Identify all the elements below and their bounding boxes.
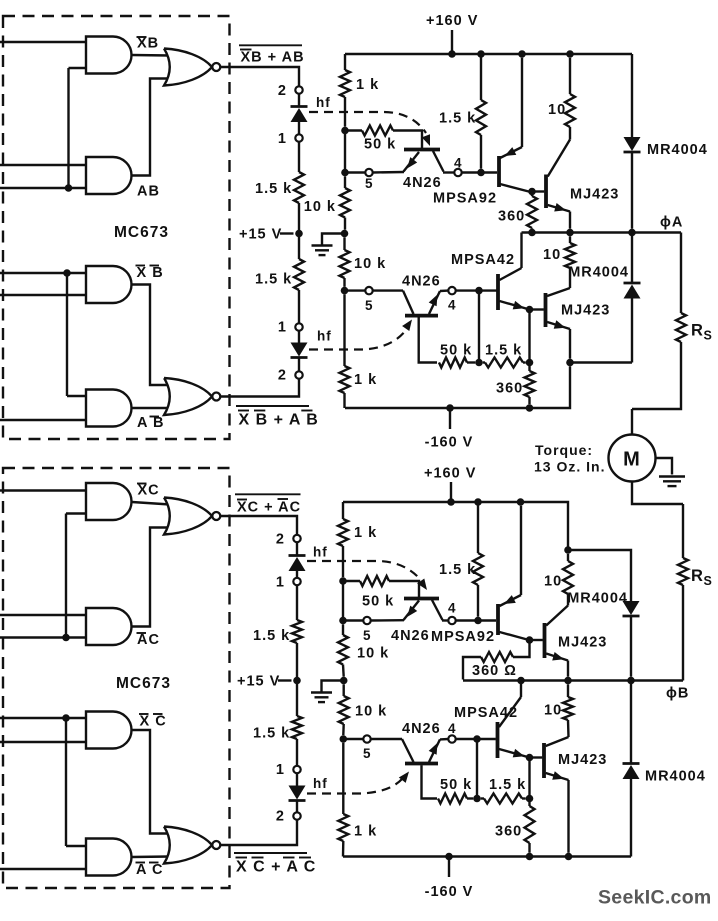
svg-text:MJ423: MJ423: [558, 635, 607, 651]
resistor 10 k (top upper): [344, 176, 346, 188]
svg-text:MPSA92: MPSA92: [431, 629, 495, 645]
svg-text:2: 2: [276, 532, 285, 548]
ground (top half): [322, 234, 345, 245]
svg-text:4: 4: [454, 156, 463, 171]
wire: [0, 489, 88, 491]
transistor MPSA92 Q1: [497, 156, 501, 187]
svg-text:MPSA92: MPSA92: [433, 191, 497, 207]
wire: [0, 187, 88, 189]
wire: [631, 409, 633, 434]
resistor 10 k (top lower): [343, 237, 345, 250]
svg-text:MR4004: MR4004: [647, 142, 708, 158]
svg-text:50 k: 50 k: [364, 137, 396, 153]
junction: [566, 229, 574, 237]
svg-text:R: R: [691, 567, 704, 585]
junction: [474, 617, 482, 625]
junction: [517, 498, 525, 506]
svg-text:2: 2: [276, 809, 285, 825]
wire: [632, 482, 683, 504]
wire MJ423 emitter to MR4004 anode: [570, 361, 632, 363]
pin 4 terminal U5: [448, 617, 455, 624]
pin 5 terminal U3: [365, 287, 372, 294]
svg-text:1 k: 1 k: [354, 525, 377, 541]
svg-text:50 k: 50 k: [440, 343, 472, 359]
svg-text:-160 V: -160 V: [425, 884, 474, 900]
wire: [298, 358, 300, 371]
junction: [62, 634, 70, 642]
resistor 1.5 k (LED chain upper, top): [294, 172, 304, 203]
svg-text:MC673: MC673: [116, 675, 171, 692]
svg-text:10: 10: [544, 574, 562, 590]
junction: [473, 735, 481, 743]
svg-text:4: 4: [448, 601, 457, 616]
svg-text:ϕB: ϕB: [666, 686, 689, 702]
NOR gate U1c: [164, 49, 212, 86]
wire: [298, 122, 300, 134]
svg-text:50 k: 50 k: [440, 777, 472, 793]
wire: [0, 717, 88, 719]
diode MR4004 D4: [630, 681, 632, 764]
pin 4 terminal U6: [448, 735, 455, 742]
junction node A1: [341, 127, 349, 135]
svg-text:5: 5: [363, 746, 372, 761]
wire: [132, 54, 170, 57]
wire: [298, 290, 300, 323]
resistor 360 ohm (bottom): [513, 640, 530, 657]
wire: [65, 718, 67, 846]
junction: [475, 359, 483, 367]
transistor MPSA42 Q3: [496, 274, 500, 310]
wire: [67, 68, 69, 188]
svg-text:360: 360: [498, 209, 525, 225]
svg-text:1.5 k: 1.5 k: [485, 343, 522, 359]
wire: [520, 233, 522, 269]
svg-text:2: 2: [278, 368, 287, 384]
svg-text:4N26: 4N26: [403, 175, 442, 191]
motor M: [609, 435, 656, 482]
svg-text:1 k: 1 k: [354, 372, 377, 388]
svg-text:1 k: 1 k: [356, 77, 379, 93]
resistor 1.5 k (bottom, base feed): [477, 502, 479, 553]
wire pin5 net U3: [345, 289, 366, 291]
svg-text:MJ423: MJ423: [570, 187, 619, 203]
resistor 10 (bottom upper): [567, 554, 569, 561]
AND gate (AB) U1b: [86, 157, 132, 194]
phase A rail: [522, 231, 682, 233]
junction: [564, 677, 572, 685]
wire: [456, 289, 497, 291]
svg-text:1 k: 1 k: [354, 824, 377, 840]
wire: [66, 273, 68, 396]
wire: [132, 855, 170, 858]
svg-text:X B + A B: X B + A B: [239, 412, 319, 429]
svg-text:+15 V: +15 V: [239, 227, 282, 243]
wire: [443, 171, 454, 173]
svg-text:10 k: 10 k: [357, 646, 389, 662]
pin 1 terminal of optocoupler U2: [295, 134, 302, 141]
junction: [65, 184, 73, 192]
resistor 50 k (top lower): [439, 358, 467, 368]
svg-text:1: 1: [276, 575, 285, 591]
svg-text:ϕA: ϕA: [660, 215, 683, 231]
wire: [440, 738, 448, 741]
svg-text:+160 V: +160 V: [424, 466, 476, 482]
junction: [528, 188, 536, 196]
wire node XB-bar+AB-bar: [221, 379, 300, 397]
pin 2 terminal of optocoupler U5: [293, 535, 300, 542]
junction: [628, 229, 636, 237]
wire: [296, 643, 298, 716]
pin 5 terminal U6: [363, 735, 370, 742]
junction: [340, 677, 348, 685]
junction: [445, 853, 453, 861]
AND gate (X&#8304;B) U1a: [86, 37, 132, 74]
svg-text:MJ423: MJ423: [558, 752, 607, 768]
junction: [475, 287, 483, 295]
junction: [341, 230, 349, 238]
junction: [448, 50, 456, 58]
svg-text:X B: X B: [137, 265, 164, 281]
wire: [0, 41, 88, 43]
wire: [528, 310, 530, 363]
transistor MJ423 Q2: [544, 175, 548, 209]
wire: [66, 845, 88, 847]
resistor 1 k (bottom): [342, 502, 344, 519]
-160 V rail (top): [345, 366, 570, 408]
svg-text:MR4004: MR4004: [568, 265, 629, 281]
svg-text:XC + AC: XC + AC: [237, 500, 301, 516]
diode MR4004 D2: [631, 233, 633, 284]
NOR gate U4f: [164, 827, 212, 864]
resistor 360 (top lower): [528, 363, 530, 372]
hf dashed coupling path U3: [309, 330, 406, 350]
wire node XC-bar+AC-bar: [221, 820, 298, 845]
diode MR4004 D3: [623, 601, 640, 615]
svg-text:AC: AC: [137, 632, 160, 648]
wire: [296, 571, 298, 578]
+160 V rail (top): [345, 53, 632, 55]
wire: [476, 739, 478, 799]
wire: [65, 514, 67, 638]
resistor 1.5 k (bottom lower): [481, 797, 484, 799]
svg-text:-160 V: -160 V: [425, 435, 474, 451]
svg-text:hf: hf: [313, 776, 328, 791]
junction: [526, 306, 534, 314]
resistor 360 (top upper): [527, 196, 537, 228]
wire: [298, 94, 300, 107]
wire: [66, 512, 88, 514]
LED of optocoupler U3: [291, 343, 308, 357]
resistor Rs (bottom): [682, 504, 684, 558]
-160 V supply (bottom): [448, 857, 450, 878]
AND gate (AC-bar) U4b: [86, 608, 132, 645]
wire: [132, 502, 170, 505]
wire: [0, 272, 88, 274]
resistor 1.5 k (LED chain lower, top): [294, 259, 304, 290]
junction: [447, 498, 455, 506]
resistor 50 k (bottom lower): [438, 794, 467, 804]
svg-text:5: 5: [365, 176, 374, 191]
svg-text:1.5 k: 1.5 k: [253, 726, 290, 742]
junction: [526, 404, 534, 412]
svg-text:1.5 k: 1.5 k: [439, 111, 476, 127]
wire: [67, 395, 88, 397]
motor ground: [656, 458, 673, 475]
resistor 10 k (bottom lower): [343, 684, 345, 696]
resistor 10 k (bottom upper): [342, 624, 344, 635]
wire: [0, 614, 88, 616]
MC673 package outline (dashed box, top): [3, 16, 230, 439]
MC673 package outline (dashed box, bottom): [3, 468, 230, 888]
pin 2 terminal of optocoupler U3: [295, 371, 302, 378]
wire: [69, 67, 89, 69]
svg-text:A C: A C: [136, 862, 163, 878]
svg-text:Torque:: Torque:: [535, 442, 593, 458]
svg-text:X C: X C: [140, 714, 167, 730]
svg-text:+15 V: +15 V: [237, 674, 280, 690]
wire: [296, 585, 298, 620]
phototransistor 4N26 U2: [421, 148, 423, 151]
transistor MPSA42 Q7: [496, 722, 500, 758]
wire: [0, 419, 88, 421]
junction: [627, 677, 635, 685]
svg-text:10 k: 10 k: [355, 704, 387, 720]
wire: [132, 528, 170, 627]
svg-text:10: 10: [544, 703, 562, 719]
svg-text:R: R: [691, 322, 704, 340]
wire: [296, 773, 298, 785]
transistor MJ423 Q8: [542, 743, 546, 778]
junction: [446, 404, 454, 412]
wire: [298, 142, 300, 172]
LED of optocoupler U5: [289, 554, 306, 557]
wire: [344, 131, 346, 173]
junction: [62, 714, 70, 722]
wire: [462, 171, 497, 173]
svg-text:1: 1: [276, 762, 285, 778]
svg-text:4N26: 4N26: [391, 628, 430, 644]
wire node XC+AC: [221, 516, 298, 535]
svg-text:S: S: [704, 574, 713, 588]
wire: [132, 730, 170, 834]
+160 V rail (bottom): [343, 502, 568, 550]
NOR gate U1f: [164, 378, 212, 415]
svg-text:2: 2: [278, 83, 287, 99]
svg-text:10 k: 10 k: [354, 256, 386, 272]
svg-text:1.5 k: 1.5 k: [255, 181, 292, 197]
resistor 1.5 k (LED chain lower, bottom): [292, 716, 302, 739]
wire: [440, 289, 448, 292]
junction: [477, 169, 485, 177]
junction: [474, 498, 482, 506]
wire: [0, 164, 88, 166]
-160 V rail (bottom): [343, 855, 631, 857]
pin 4 terminal U2: [454, 169, 461, 176]
svg-text:4: 4: [448, 298, 457, 313]
transistor MPSA92 Q5: [496, 604, 500, 635]
pin 2 terminal of optocoupler U2: [295, 86, 302, 93]
wire: [0, 636, 88, 638]
junction: [517, 677, 525, 685]
resistor 1.5 k (LED chain upper, bottom): [292, 620, 302, 643]
AND gate (XC-bar) U4d: [86, 712, 132, 749]
wire: [132, 79, 170, 176]
svg-text:MPSA42: MPSA42: [454, 705, 518, 721]
resistor 1 k (top): [344, 54, 346, 70]
resistor 10 (top upper): [569, 58, 571, 94]
resistor 1 k (top lower): [343, 294, 345, 366]
wire: [132, 285, 170, 386]
junction: [564, 546, 572, 554]
wire: [132, 407, 170, 409]
resistor 1.5 k (top lower): [483, 361, 485, 363]
wire: [528, 758, 530, 799]
svg-text:360 Ω: 360 Ω: [472, 663, 517, 679]
wire pin5 net U6: [343, 738, 363, 740]
phototransistor 4N26 U5: [418, 597, 420, 599]
AND gate (AB-bar) U1e: [86, 390, 132, 427]
svg-text:MC673: MC673: [114, 224, 169, 241]
wire: [456, 738, 496, 740]
junction: [526, 754, 534, 762]
svg-text:XC: XC: [138, 483, 160, 499]
hf dashed coupling path U2: [309, 112, 426, 133]
junction node B1: [339, 577, 347, 585]
resistor 50 k (top upper): [362, 126, 393, 136]
svg-text:50 k: 50 k: [362, 594, 394, 610]
wire: [373, 171, 404, 174]
junction: [526, 636, 534, 644]
wire: [296, 801, 298, 812]
svg-text:360: 360: [496, 381, 523, 397]
wire: [342, 581, 344, 621]
junction: [477, 50, 485, 58]
junction: [473, 795, 481, 803]
svg-text:5: 5: [365, 298, 374, 313]
pin 5 terminal U2: [365, 169, 372, 176]
svg-text:10 k: 10 k: [304, 199, 336, 215]
phototransistor 4N26 U6: [405, 762, 438, 766]
wire: [298, 331, 300, 343]
svg-text:AB: AB: [137, 184, 160, 200]
pin 1 terminal of optocoupler U5: [293, 578, 300, 585]
transistor MJ423 Q4: [544, 293, 548, 327]
AND gate (AC-bar2) U4e: [86, 839, 132, 876]
junction: [565, 853, 573, 861]
transistor MJ423 Q6: [543, 623, 547, 658]
svg-text:10: 10: [548, 102, 566, 118]
wire: [456, 619, 496, 621]
junction: [526, 853, 534, 861]
svg-text:360: 360: [495, 824, 522, 840]
phase B rail: [463, 679, 683, 681]
svg-text:1: 1: [278, 320, 287, 336]
svg-text:4: 4: [448, 721, 457, 736]
wire jog to MR4004 (bottom): [568, 550, 631, 601]
AND gate (XB-bar) U1d: [86, 266, 131, 303]
junction: [341, 287, 349, 295]
svg-text:1.5 k: 1.5 k: [255, 272, 292, 288]
svg-text:MR4004: MR4004: [645, 769, 706, 785]
wire: [373, 289, 403, 291]
resistor Rs (top): [680, 233, 682, 314]
resistor 10 (top lower): [569, 236, 571, 243]
pin 5 terminal U5: [363, 617, 370, 624]
junction: [566, 50, 574, 58]
hf dashed coupling path U5: [307, 561, 419, 578]
hf dashed coupling path U6: [307, 779, 402, 794]
LED of optocoupler U2: [291, 105, 308, 108]
svg-text:4N26: 4N26: [402, 274, 441, 290]
wire: [520, 681, 522, 698]
junction: [526, 359, 534, 367]
phototransistor 4N26 U3: [405, 314, 438, 318]
NOR gate U4c: [164, 498, 212, 535]
wire: [296, 542, 298, 555]
ground (bottom half): [322, 681, 344, 692]
diode MR4004 D1: [631, 54, 633, 137]
junction: [566, 359, 574, 367]
wire: [0, 294, 88, 296]
svg-text:1.5 k: 1.5 k: [489, 777, 526, 793]
svg-text:5: 5: [363, 628, 372, 643]
junction: [528, 229, 536, 237]
svg-text:13 Oz. In.: 13 Oz. In.: [534, 459, 605, 475]
svg-text:+160 V: +160 V: [426, 13, 478, 29]
junction: [518, 50, 526, 58]
junction: [526, 795, 534, 803]
svg-text:1.5 k: 1.5 k: [439, 562, 476, 578]
junction: [340, 735, 348, 743]
wire pin5 net U2: [345, 171, 365, 173]
resistor 360 (bottom lower): [528, 799, 530, 807]
junction: [341, 169, 349, 177]
svg-text:M: M: [623, 449, 641, 471]
svg-text:1.5 k: 1.5 k: [253, 628, 290, 644]
svg-text:MJ423: MJ423: [561, 303, 610, 319]
junction: [63, 269, 71, 277]
wire: [442, 619, 448, 621]
resistor 50 k (bottom upper): [360, 576, 389, 586]
svg-text:SeekIC.com: SeekIC.com: [598, 887, 712, 909]
wire: [298, 203, 300, 259]
junction: [339, 617, 347, 625]
LED of optocoupler U6: [289, 786, 306, 800]
wire node XB+AB: [221, 67, 300, 86]
svg-text:1: 1: [278, 131, 287, 147]
wire: [0, 868, 88, 870]
svg-text:MPSA42: MPSA42: [451, 252, 515, 268]
resistor 10 (bottom lower): [567, 684, 569, 697]
pin 4 terminal U3: [448, 287, 455, 294]
svg-text:XB + AB: XB + AB: [241, 50, 305, 66]
svg-text:X C + A C: X C + A C: [236, 859, 316, 876]
resistor 1 k (bottom lower): [342, 743, 344, 814]
svg-text:hf: hf: [317, 329, 332, 344]
svg-text:MR4004: MR4004: [567, 591, 628, 607]
wire: [478, 291, 480, 363]
svg-text:4N26: 4N26: [402, 721, 441, 737]
svg-text:hf: hf: [316, 95, 331, 110]
svg-text:10: 10: [543, 247, 561, 263]
svg-text:hf: hf: [313, 545, 328, 560]
wire: [0, 741, 88, 743]
wire: [371, 738, 402, 740]
wire: [296, 739, 298, 766]
pin 2 terminal of optocoupler U6: [293, 812, 300, 819]
pin 1 terminal of optocoupler U3: [295, 323, 302, 330]
pin 1 terminal of optocoupler U6: [293, 766, 300, 773]
